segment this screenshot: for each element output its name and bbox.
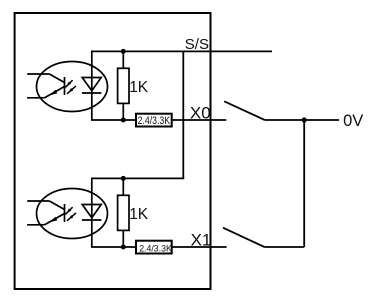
resistor R2 1K [118, 178, 129, 247]
wire X0 rail inside module [91, 119, 136, 121]
divider resistor box 2.4/3.3K (upper) [136, 114, 172, 127]
light arrows of U2 [65, 207, 76, 221]
junction dot X0-R1 [121, 118, 126, 123]
phototransistor of U1 [27, 74, 64, 98]
svg-text:S/S: S/S [185, 36, 209, 53]
resistor R1 1K [118, 51, 129, 120]
junction dot S/S-R1 [121, 49, 126, 54]
optocoupler U2 ellipse [37, 189, 108, 239]
junction dot feed-R2 [121, 176, 126, 181]
svg-text:1K: 1K [129, 206, 149, 223]
wire X1 to terminal [172, 246, 227, 248]
svg-text:0V: 0V [343, 112, 363, 130]
svg-text:2.4/3.3K: 2.4/3.3K [139, 244, 172, 255]
junction dot 0V [302, 117, 307, 122]
light arrows of U1 [65, 80, 76, 94]
wire X1 switch to 0V bus [265, 246, 305, 248]
wire X0 switch to 0V junction [265, 119, 339, 121]
LED of U1 [82, 51, 102, 120]
wire 0V vertical bus [303, 120, 305, 247]
phototransistor of U2 [27, 201, 64, 225]
svg-text:1K: 1K [129, 79, 149, 96]
wire X0 to terminal [172, 119, 227, 121]
svg-text:X0: X0 [190, 103, 211, 122]
wire X1 rail inside module [91, 246, 136, 248]
wire top rail of lower block [91, 177, 184, 179]
PLC module outline [15, 13, 211, 289]
wire S/S rail [91, 50, 272, 52]
optocoupler U1 ellipse [37, 62, 108, 112]
LED of U2 [82, 178, 102, 247]
wire S/S vertical feed [182, 51, 184, 178]
svg-text:2.4/3.3K: 2.4/3.3K [138, 115, 171, 127]
svg-text:X1: X1 [191, 231, 212, 250]
switch X1 blade [223, 228, 265, 247]
junction dot X1-R2 [121, 245, 126, 250]
divider resistor box 2.4/3.3K (lower) [136, 241, 172, 254]
switch X0 blade [224, 101, 265, 120]
